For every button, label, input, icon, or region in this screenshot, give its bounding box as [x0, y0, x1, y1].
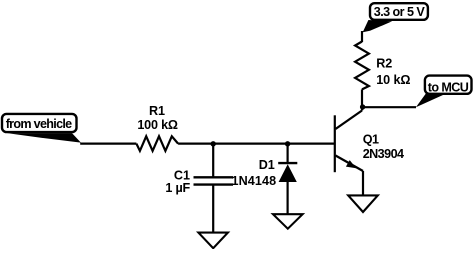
- junction: collector node: [360, 104, 365, 109]
- ground (Q1 emitter): [348, 195, 378, 212]
- capacitor C1: [194, 177, 234, 184]
- diode D1 (cathode bar + anode triangle): [278, 163, 297, 182]
- svg-text:2N3904: 2N3904: [363, 147, 404, 161]
- ground (C1): [198, 233, 228, 249]
- svg-text:R2: R2: [376, 57, 392, 71]
- svg-text:to MCU: to MCU: [428, 80, 469, 94]
- wire: flag tip to R1: [80, 143, 136, 145]
- junction: node at D1 tap: [285, 141, 290, 146]
- svg-text:Q1: Q1: [363, 133, 379, 147]
- svg-text:1N4148: 1N4148: [231, 174, 276, 188]
- svg-text:R1: R1: [149, 104, 165, 118]
- svg-text:D1: D1: [259, 158, 275, 172]
- wire: C1 bottom plate to ground: [212, 185, 214, 233]
- wire: R2 to collector node: [361, 89, 363, 110]
- wire: D1 anode to ground: [287, 182, 289, 214]
- junction: node at C1 tap: [211, 141, 216, 146]
- svg-text:1 µF: 1 µF: [165, 181, 190, 195]
- net flag box: to MCU: [416, 76, 472, 108]
- ground (D1): [273, 214, 303, 229]
- svg-text:10 kΩ: 10 kΩ: [376, 73, 410, 87]
- transistor Q1 (NPN): [335, 111, 363, 173]
- net flag box: from vehicle: [2, 114, 81, 143]
- svg-text:100 kΩ: 100 kΩ: [137, 118, 178, 132]
- wire: node to D1 cathode: [287, 144, 289, 164]
- wire: Q1 emitter to ground: [362, 171, 364, 195]
- net flag box: 3.3 or 5 V: [363, 3, 428, 32]
- wire: node to C1 top plate: [212, 144, 214, 178]
- wire: collector node to MCU flag: [362, 106, 416, 108]
- wire: R1 to Q1 base: [178, 143, 335, 145]
- svg-text:from vehicle: from vehicle: [6, 117, 72, 131]
- wire: supply flag to R2: [361, 31, 363, 42]
- svg-text:3.3 or 5 V: 3.3 or 5 V: [374, 5, 426, 19]
- resistor R1: [136, 136, 178, 151]
- resistor R2: [355, 42, 369, 90]
